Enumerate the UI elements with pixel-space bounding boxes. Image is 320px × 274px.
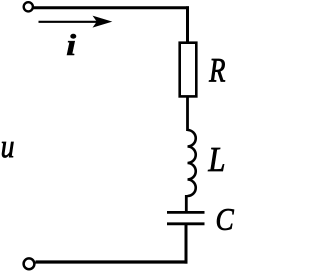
wire resistor to inductor bbox=[186, 96, 189, 131]
inductor L1 coil bbox=[188, 130, 196, 196]
label C bbox=[217, 209, 234, 230]
terminal (top-left) bbox=[24, 2, 33, 11]
capacitor C1 top plate bbox=[167, 211, 205, 214]
resistor R1 body bbox=[180, 43, 197, 97]
wire inductor to capacitor bbox=[185, 195, 188, 211]
wire top-right vertical bbox=[186, 6, 189, 42]
wire top horizontal bbox=[34, 6, 190, 9]
label R bbox=[209, 59, 225, 82]
current arrow bbox=[39, 16, 113, 28]
wire bottom horizontal bbox=[36, 260, 188, 263]
label i bbox=[67, 34, 76, 55]
capacitor C1 bottom plate bbox=[167, 222, 205, 225]
label u bbox=[2, 142, 13, 158]
wire capacitor down bbox=[185, 224, 188, 264]
terminal (bottom-left) bbox=[24, 258, 35, 269]
label L bbox=[208, 148, 224, 171]
